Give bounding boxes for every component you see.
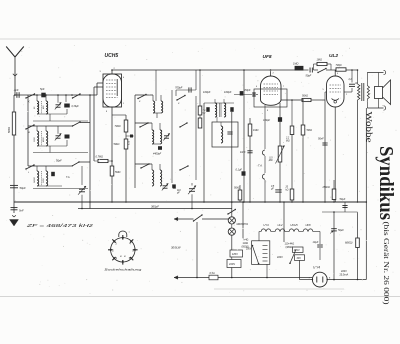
svg-text:700pF: 700pF	[175, 86, 183, 90]
svg-text:1MΩ: 1MΩ	[317, 59, 322, 62]
svg-text:30V: 30V	[297, 257, 302, 260]
svg-text:1nF: 1nF	[14, 88, 19, 92]
svg-text:700Ω: 700Ω	[115, 125, 121, 128]
svg-text:Syndikus: Syndikus	[375, 146, 397, 220]
svg-text:UL2: UL2	[329, 53, 338, 59]
svg-text:500Ω: 500Ω	[8, 127, 11, 133]
svg-text:5nF: 5nF	[19, 209, 24, 213]
svg-text:kΩ: kΩ	[286, 189, 289, 191]
svg-text:50nF: 50nF	[318, 138, 324, 141]
svg-text:50kΩ: 50kΩ	[114, 143, 120, 146]
svg-text:ZF = 468/473 kHz: ZF = 468/473 kHz	[25, 223, 94, 228]
svg-text:UCH5: UCH5	[105, 53, 119, 59]
svg-text:125V: 125V	[232, 252, 238, 256]
svg-text:50kΩ: 50kΩ	[234, 187, 240, 190]
svg-text:200V: 200V	[246, 248, 252, 250]
svg-text:10µF: 10µF	[313, 241, 319, 244]
svg-text:(bis Gerät Nr. 26 000): (bis Gerät Nr. 26 000)	[382, 222, 391, 306]
svg-text:2,2: 2,2	[285, 138, 290, 140]
svg-text:U Y4: U Y4	[313, 266, 320, 270]
svg-text:UY4: UY4	[263, 223, 269, 227]
svg-text:30/5LW: 30/5LW	[171, 246, 181, 250]
svg-text:Wobbe: Wobbe	[365, 112, 374, 144]
svg-text:25,5mA: 25,5mA	[340, 273, 349, 276]
svg-text:10nF: 10nF	[240, 151, 246, 154]
svg-text:80pF: 80pF	[245, 88, 251, 92]
svg-text:220V: 220V	[277, 256, 283, 259]
svg-text:UF8: UF8	[263, 54, 272, 60]
svg-text:1MΩ: 1MΩ	[253, 129, 258, 132]
svg-text:Sockelschaltung: Sockelschaltung	[104, 268, 141, 272]
svg-text:(380Ω): (380Ω)	[286, 246, 294, 249]
svg-text:700Ω: 700Ω	[336, 64, 342, 67]
svg-text:2,2: 2,2	[348, 79, 353, 81]
svg-text:5pF: 5pF	[40, 87, 45, 91]
svg-text:M: M	[28, 132, 30, 134]
svg-text:MΩ: MΩ	[269, 160, 273, 162]
svg-text:UF8: UF8	[305, 223, 311, 227]
svg-text:1MΩ: 1MΩ	[293, 63, 298, 66]
svg-text:T.A.: T.A.	[66, 176, 70, 179]
svg-text:0,7MΩ: 0,7MΩ	[96, 156, 104, 159]
svg-text:365µF: 365µF	[151, 205, 159, 209]
svg-text:110Ω: 110Ω	[243, 242, 249, 245]
svg-text:5MΩ: 5MΩ	[115, 171, 120, 174]
svg-text:250kΩ: 250kΩ	[322, 186, 330, 189]
svg-text:MR/0,87A: MR/0,87A	[237, 222, 249, 226]
svg-text:8(60Ω): 8(60Ω)	[345, 242, 353, 245]
svg-text:5MΩ: 5MΩ	[307, 129, 312, 132]
svg-text:UL2: UL2	[278, 223, 283, 227]
svg-text:MΩ: MΩ	[286, 140, 290, 142]
svg-text:50µF: 50µF	[340, 198, 346, 201]
svg-text:50µF: 50µF	[338, 229, 344, 232]
svg-text:0,1µF: 0,1µF	[236, 169, 243, 172]
svg-text:100pF: 100pF	[224, 90, 232, 94]
svg-text:50kΩ: 50kΩ	[302, 95, 308, 98]
svg-text:18000: 18000	[34, 176, 36, 183]
svg-text:50µF: 50µF	[20, 186, 27, 190]
svg-text:4400pF: 4400pF	[153, 153, 162, 156]
svg-text:T.A.: T.A.	[258, 164, 263, 168]
svg-text:100pF: 100pF	[203, 90, 211, 94]
svg-text:50pF: 50pF	[56, 160, 62, 163]
svg-text:UCH5: UCH5	[290, 223, 298, 227]
svg-text:100µF: 100µF	[263, 119, 270, 122]
svg-text:50pF: 50pF	[306, 75, 312, 78]
svg-text:220V: 220V	[229, 262, 235, 266]
svg-text:0,39µF: 0,39µF	[72, 106, 80, 108]
svg-text:pF: pF	[176, 193, 180, 195]
